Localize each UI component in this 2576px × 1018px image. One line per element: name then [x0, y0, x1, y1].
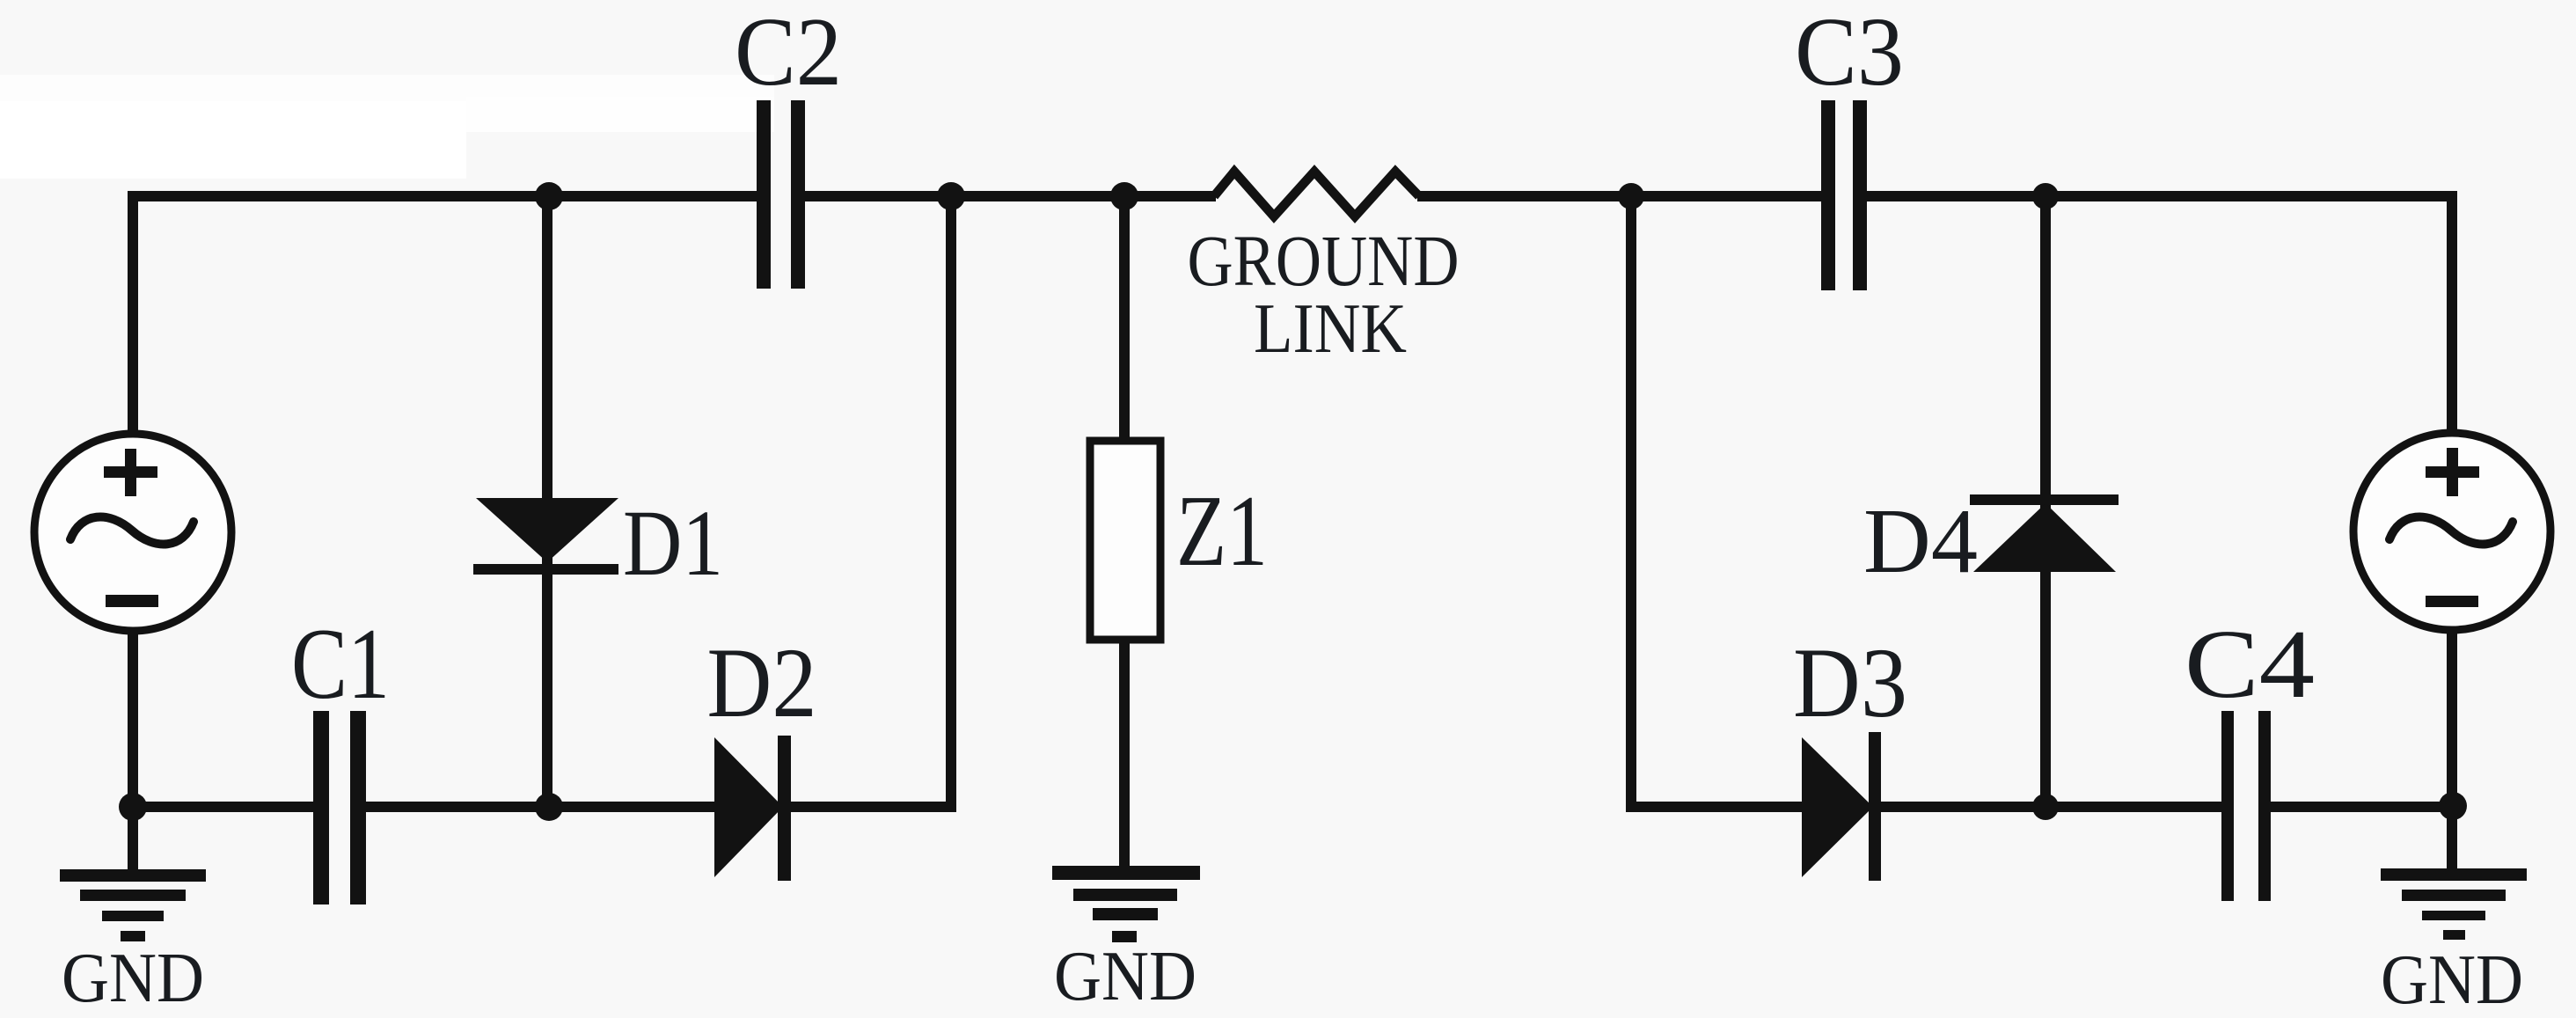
- node junction bottom D1 branch: [535, 793, 563, 821]
- svg-text:D4: D4: [1863, 489, 1978, 592]
- ground right: [2381, 868, 2527, 1018]
- svg-text:GND: GND: [1054, 938, 1197, 1015]
- svg-text:C4: C4: [2184, 611, 2315, 719]
- wire bottom rail C1 to D2: [364, 802, 716, 812]
- node junction bottom D4 branch: [2032, 794, 2059, 820]
- AC source V1: [34, 434, 231, 631]
- wire Z1 branch bottom to middle ground: [1119, 643, 1130, 871]
- node junction top Z1 branch: [1110, 182, 1138, 210]
- capacitor C1: [291, 608, 390, 904]
- wire bottom rail left to C1: [128, 802, 315, 812]
- wire bottom rail C4 to V2 column: [2269, 802, 2457, 812]
- svg-text:GND: GND: [2381, 941, 2523, 1018]
- diode D2: [707, 628, 817, 881]
- AC source V2: [2353, 433, 2550, 630]
- impedance Z1: [1090, 441, 1268, 640]
- wire right circuit left branch down and bottom rail to D3: [1631, 201, 1804, 807]
- wire V2 bottom to right ground: [2447, 630, 2457, 871]
- node junction top left loop right corner: [937, 182, 965, 210]
- node junction bottom right source: [2439, 792, 2467, 820]
- wire bottom rail D2 to corner up to top rail: [789, 201, 951, 807]
- wire D4 branch vertical: [2040, 201, 2051, 802]
- ground middle: [1052, 866, 1200, 1015]
- svg-text:D3: D3: [1793, 628, 1907, 738]
- wire D1 branch vertical: [542, 201, 553, 802]
- wire top rail from ground link to C3: [1417, 191, 1823, 201]
- diode D3: [1793, 628, 1907, 881]
- resistor label GROUND LINK: [1188, 220, 1460, 368]
- wire V1 bottom to left ground: [128, 630, 138, 871]
- wire Z1 branch top: [1119, 201, 1130, 441]
- wire top rail from C3 to right corner down to V2: [1865, 196, 2452, 436]
- wire top rail left segment with corner to V1: [133, 196, 758, 436]
- diode D1: [473, 492, 723, 596]
- svg-text:GND: GND: [62, 940, 204, 1017]
- capacitor C2: [735, 0, 842, 289]
- wire bottom rail D3 to C4: [1878, 802, 2223, 812]
- resistor GROUND LINK zigzag: [1214, 172, 1419, 216]
- node junction top D4 branch: [2032, 183, 2059, 209]
- node junction top right circuit left branch: [1618, 183, 1644, 209]
- wire top rail from C2 to ground link: [803, 191, 1216, 201]
- ground left: [60, 869, 206, 1017]
- svg-text:LINK: LINK: [1254, 290, 1407, 368]
- capacitor C3: [1795, 0, 1904, 290]
- svg-text:D1: D1: [623, 492, 723, 596]
- svg-text:C2: C2: [735, 0, 842, 106]
- svg-text:C3: C3: [1795, 0, 1904, 106]
- node junction top D1 branch: [535, 182, 563, 210]
- svg-text:GROUND: GROUND: [1188, 220, 1460, 301]
- svg-text:C1: C1: [291, 608, 390, 720]
- diode D4: [1863, 489, 2119, 592]
- svg-text:D2: D2: [707, 628, 817, 738]
- capacitor C4: [2184, 611, 2315, 901]
- node junction bottom left source: [119, 793, 147, 821]
- svg-text:Z1: Z1: [1176, 475, 1268, 587]
